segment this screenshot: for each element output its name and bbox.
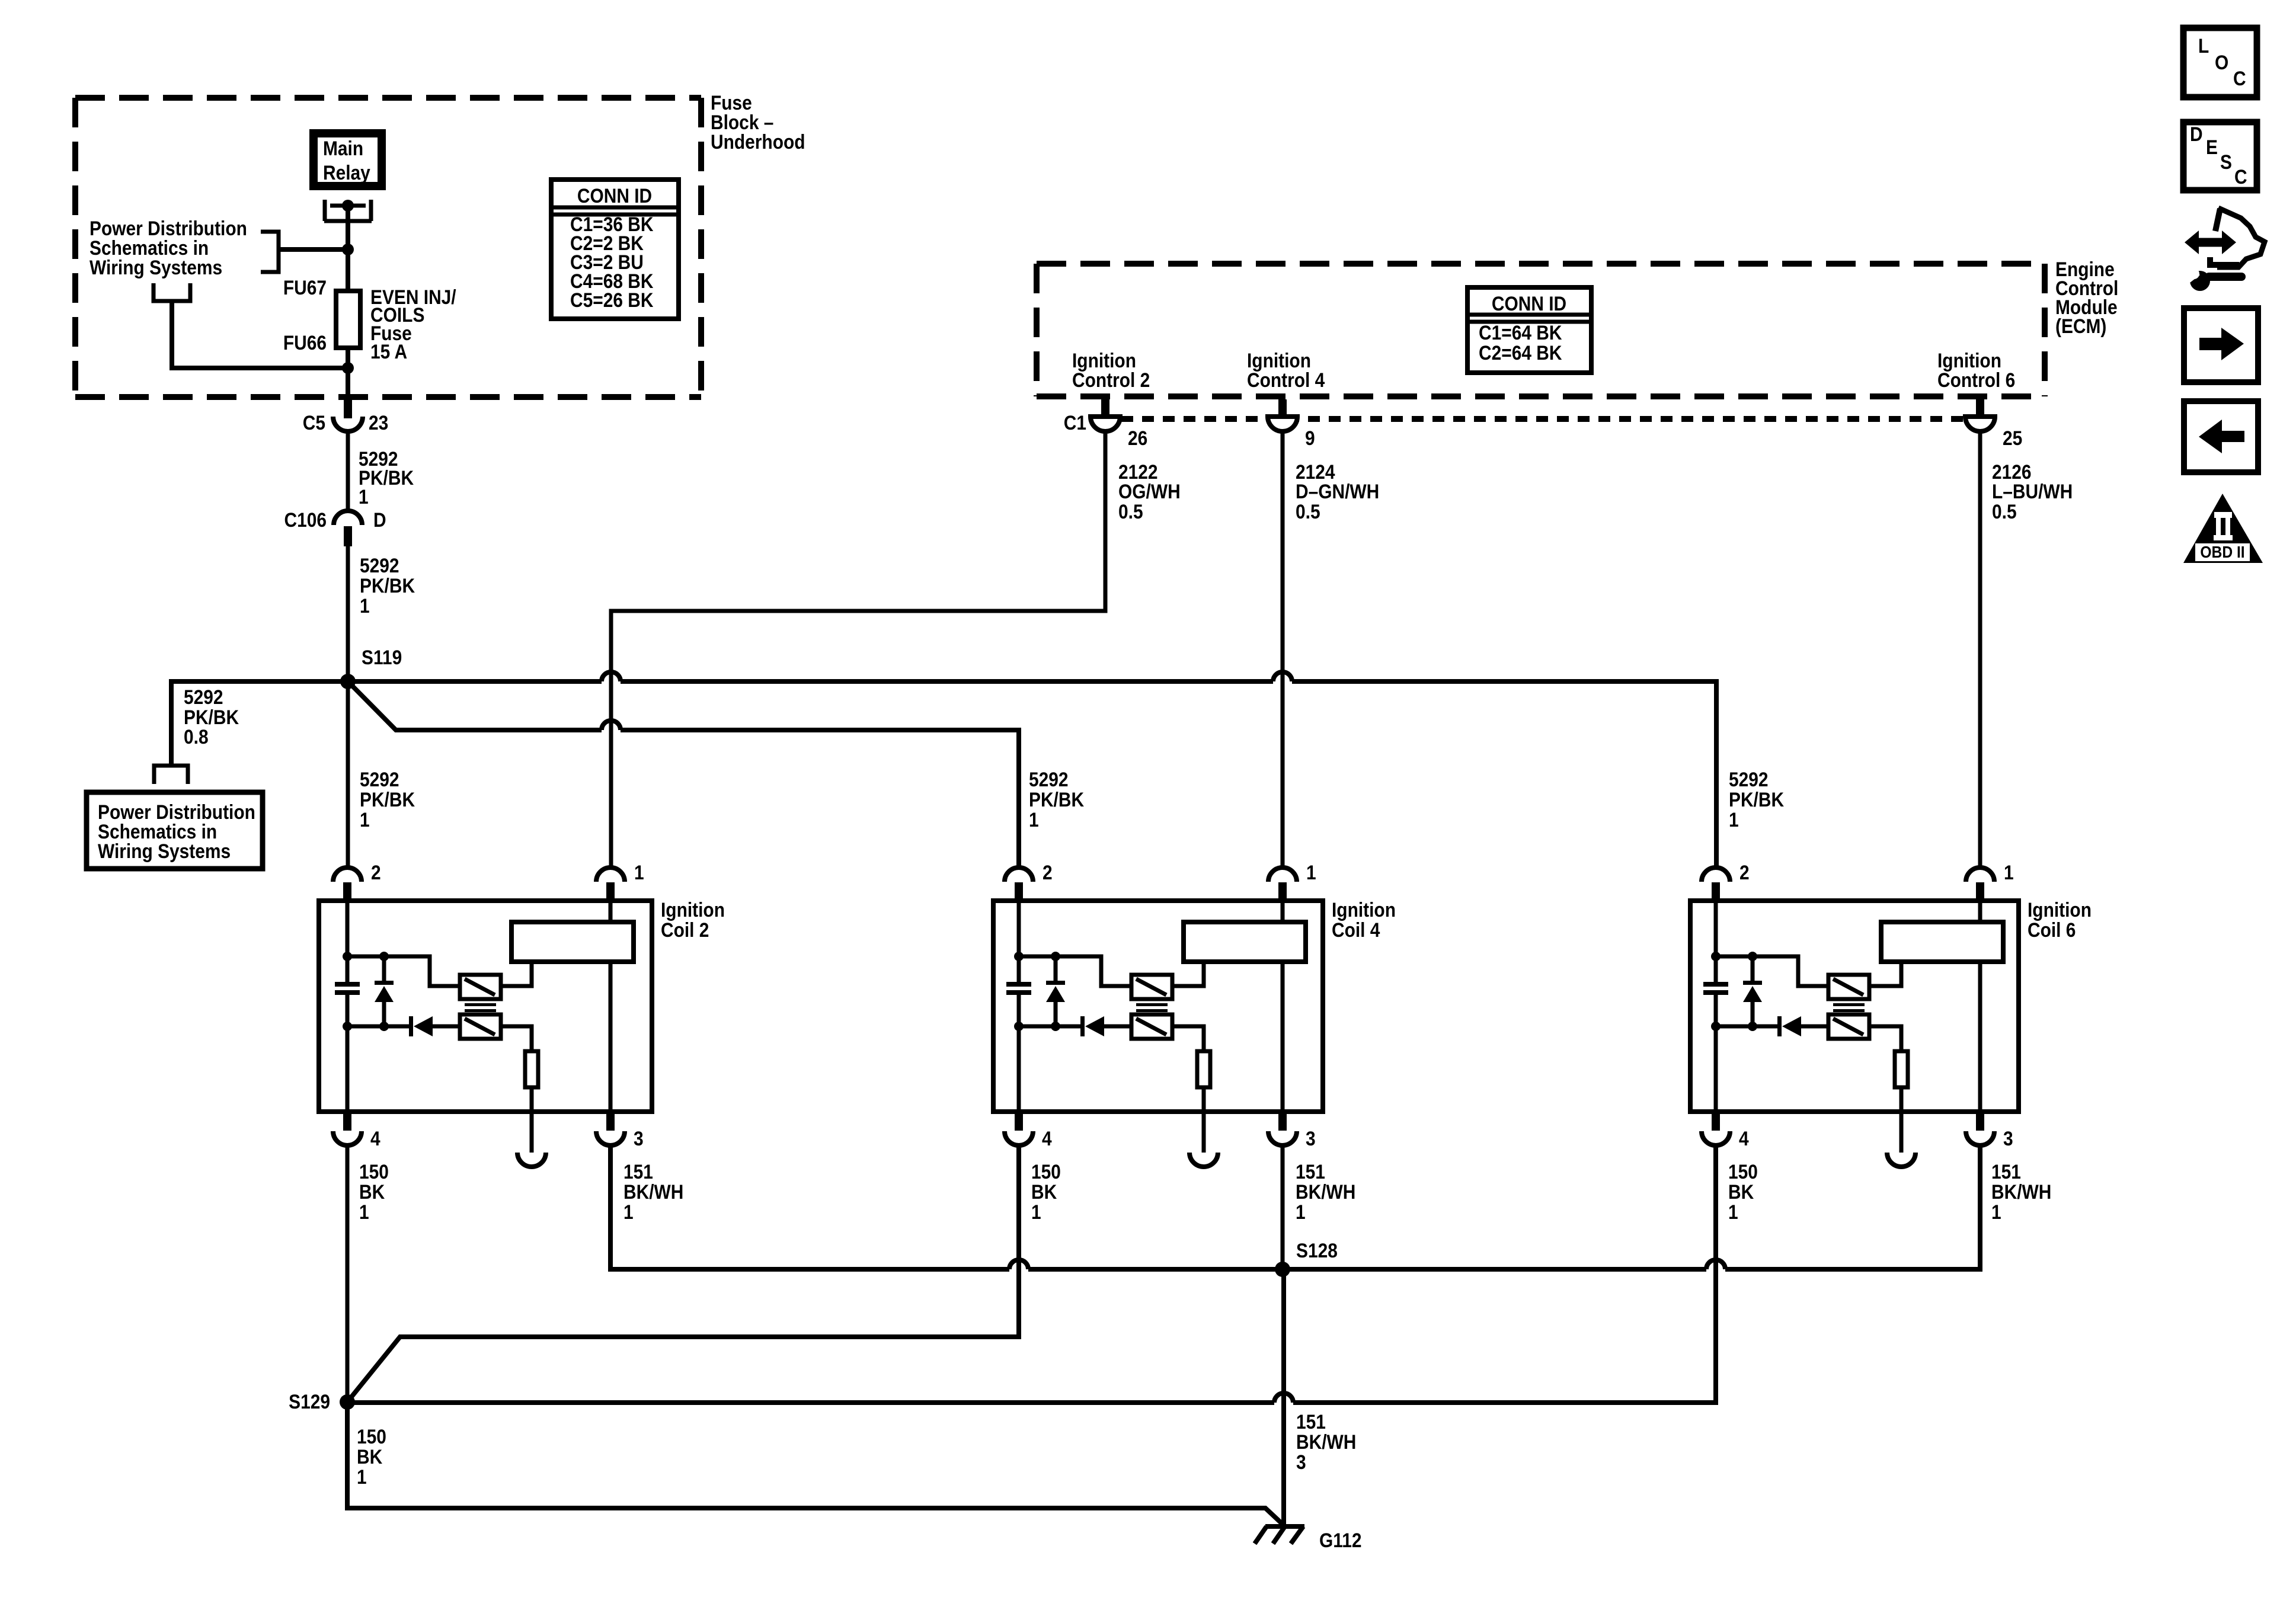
wire 150 BK 1: coil2 pin 4 down to S129 — [347, 1145, 389, 1402]
svg-text:FU67: FU67 — [283, 276, 327, 299]
coil 6 transformer core — [1833, 1003, 1865, 1012]
connector C5 pin 23 — [303, 397, 389, 434]
svg-text:Ignition: Ignition — [1332, 898, 1396, 921]
svg-text:1: 1 — [360, 594, 370, 617]
svg-text:BK: BK — [357, 1445, 382, 1468]
svg-text:15 A: 15 A — [370, 340, 407, 363]
ECM connector face dotted line — [1121, 416, 1968, 422]
svg-text:5292: 5292 — [360, 768, 399, 790]
coil 4 pin 4 connector — [1005, 1113, 1052, 1150]
main relay pedestal — [324, 200, 372, 221]
coil 2 diode — [347, 1016, 460, 1036]
svg-text:C: C — [2234, 165, 2247, 188]
coil 4 diode — [1019, 1016, 1131, 1036]
node: junction relay / power distribution tap — [342, 244, 354, 255]
svg-text:150: 150 — [1728, 1160, 1758, 1183]
label: Ignition Control 6 — [1937, 349, 2015, 391]
coil 2 primary winding — [460, 975, 501, 999]
coil 2 transformer core — [465, 1003, 496, 1012]
coil 6 pin 1 connector — [1966, 861, 2014, 900]
svg-text:Coil 6: Coil 6 — [2028, 918, 2076, 941]
wire 5292 PK/BK 1 (C5 to C106) — [348, 431, 414, 512]
coil 4 node dots — [1014, 952, 1024, 961]
node: junction below fuse FU66 — [342, 362, 354, 374]
svg-text:5292: 5292 — [184, 686, 223, 708]
svg-text:3: 3 — [634, 1127, 644, 1150]
svg-text:151: 151 — [623, 1160, 653, 1183]
coil 4 transformer core — [1136, 1003, 1168, 1012]
svg-text:150: 150 — [357, 1425, 386, 1448]
svg-text:O: O — [2215, 51, 2228, 73]
svg-text:5292: 5292 — [1029, 768, 1069, 790]
coil 4 internal wire pin1 column — [1281, 901, 1285, 1112]
coil 4 primary winding — [1131, 975, 1172, 999]
CONN ID table (ECM) — [1467, 287, 1591, 373]
wire 150 BK 1: coil4 pin 4 to S129 — [347, 1145, 1061, 1402]
svg-text:2: 2 — [371, 861, 381, 884]
svg-text:1: 1 — [1991, 1201, 2001, 1223]
svg-text:3: 3 — [1306, 1127, 1316, 1150]
coil 4 pin 1 connector — [1268, 861, 1316, 900]
wire 151 BK/WH 3: S128 down to G112 — [1284, 1269, 1356, 1526]
coil 6 secondary resistor — [1869, 1026, 1908, 1112]
coil 4 secondary winding — [1131, 1014, 1172, 1039]
svg-text:BK/WH: BK/WH — [1296, 1180, 1355, 1203]
coil 6 internal wire pin2 column — [1714, 901, 1718, 1112]
svg-text:C5: C5 — [303, 411, 325, 434]
icon: connector test / data link (double arrow, outline, wrench) — [2185, 208, 2265, 291]
svg-text:BK/WH: BK/WH — [1296, 1430, 1356, 1453]
label: Fuse Block - Underhood — [711, 91, 805, 153]
CONN ID table (fuse block) — [551, 180, 679, 319]
svg-text:1: 1 — [2004, 861, 2014, 884]
bracket above power distribution reference box — [154, 766, 188, 784]
svg-text:9: 9 — [1305, 427, 1315, 449]
wire: bracket to relay wire junction — [279, 247, 348, 252]
wire: bottom bracket down and right to fuse output junction — [172, 301, 348, 368]
svg-text:BK: BK — [359, 1180, 385, 1203]
relay: Main Relay — [314, 133, 382, 186]
splice S119 — [340, 646, 402, 689]
wire 5292 PK/BK 1: S119 down to coil2 pin 2 — [348, 681, 415, 868]
svg-text:2: 2 — [1043, 861, 1053, 884]
svg-text:D–GN/WH: D–GN/WH — [1296, 480, 1379, 502]
svg-text:S129: S129 — [289, 1390, 330, 1413]
svg-text:Control 6: Control 6 — [1937, 369, 2015, 391]
coil 4 pin 2 connector — [1005, 861, 1053, 900]
wire 5292 PK/BK: S119 right to coil6 pin 2 (hops at 1031 and 2164) — [348, 672, 1784, 868]
coil 2 pin 1 connector — [596, 861, 644, 900]
engine control module dashed box — [1037, 261, 2045, 267]
svg-text:(ECM): (ECM) — [2055, 315, 2106, 337]
coil 2 upper internal wire to primary winding — [347, 956, 460, 986]
svg-text:C1=64 BK: C1=64 BK — [1479, 321, 1562, 344]
fuse block - underhood dashed box — [75, 98, 701, 397]
coil 4 capacitor — [1006, 982, 1031, 995]
reference box: Power Distribution Schematics in Wiring Systems — [87, 792, 263, 869]
svg-text:5292: 5292 — [360, 554, 399, 577]
coil 6 upper internal wire to primary winding — [1716, 956, 1828, 986]
connector C106 pin D — [284, 508, 386, 546]
svg-text:C2=64 BK: C2=64 BK — [1479, 341, 1562, 364]
coil 2 pin 2 connector — [333, 861, 381, 900]
svg-text:150: 150 — [359, 1160, 389, 1183]
svg-text:0.5: 0.5 — [1296, 500, 1320, 523]
label: Ignition Control 4 — [1247, 349, 1325, 391]
svg-text:BK: BK — [1728, 1180, 1754, 1203]
svg-text:151: 151 — [1296, 1410, 1326, 1433]
svg-text:Wiring Systems: Wiring Systems — [89, 256, 222, 279]
svg-text:C: C — [2233, 67, 2246, 89]
svg-text:C106: C106 — [284, 508, 327, 531]
coil 4 driver module block — [1172, 922, 1306, 986]
bracket: power distribution bottom bracket — [154, 283, 190, 301]
svg-text:1: 1 — [634, 861, 644, 884]
svg-text:C1: C1 — [1064, 411, 1086, 434]
coil 4 spark plug connector — [1189, 1112, 1218, 1167]
coil 4 upper internal wire to primary winding — [1019, 956, 1131, 986]
svg-text:Relay: Relay — [323, 161, 370, 184]
wire 2124 D-GN/WH 0.5: pin 9 to coil4 pin1 — [1283, 431, 1379, 868]
svg-text:D: D — [373, 508, 386, 531]
bracket: power distribution right bracket — [261, 232, 279, 272]
svg-text:23: 23 — [369, 411, 388, 434]
coil 2 node dots — [343, 952, 352, 961]
svg-text:L: L — [2198, 34, 2209, 57]
coil 6 driver module block — [1869, 922, 2003, 986]
coil 4 secondary resistor — [1172, 1026, 1210, 1112]
ECM connector C1 pin 26 — [1064, 399, 1148, 449]
svg-text:3: 3 — [2003, 1127, 2013, 1150]
label: Ignition Control 2 — [1072, 349, 1150, 391]
svg-text:0.5: 0.5 — [1118, 500, 1143, 523]
coil 2 pin 4 connector — [333, 1113, 380, 1150]
svg-text:PK/BK: PK/BK — [1729, 788, 1784, 811]
svg-text:1: 1 — [623, 1201, 634, 1223]
coil 6 spark plug connector — [1887, 1112, 1916, 1167]
svg-text:150: 150 — [1031, 1160, 1061, 1183]
wire 5292 PK/BK: S119 diagonal branch to coil4 pin 2 (hop at 1031) — [348, 681, 1084, 868]
coil 6 pin 3 connector — [1966, 1113, 2013, 1150]
splice S128 — [1275, 1239, 1338, 1277]
svg-text:Main: Main — [323, 137, 363, 159]
icon: OBD II triangle — [2183, 494, 2263, 563]
svg-text:2: 2 — [1739, 861, 1750, 884]
svg-text:Coil 2: Coil 2 — [661, 918, 709, 941]
ignition coil 6 box — [1690, 898, 2092, 1112]
svg-text:1: 1 — [360, 808, 370, 831]
svg-text:PK/BK: PK/BK — [360, 574, 415, 597]
svg-text:1: 1 — [359, 1201, 369, 1223]
svg-text:Underhood: Underhood — [711, 130, 805, 153]
svg-text:S: S — [2220, 151, 2232, 173]
ECM connector pin 9 — [1268, 399, 1315, 449]
svg-text:Wiring Systems: Wiring Systems — [98, 840, 231, 862]
coil 6 internal wire pin1 column — [1978, 901, 1982, 1112]
svg-text:4: 4 — [1042, 1127, 1052, 1150]
svg-text:BK: BK — [1031, 1180, 1057, 1203]
svg-text:1: 1 — [1296, 1201, 1306, 1223]
wire 150 BK 1: S129 down and right to G112 — [347, 1402, 1284, 1525]
wire 150 BK 1: coil6 pin 4 down and left to S129 (hop at ground column) — [347, 1145, 1758, 1403]
svg-text:4: 4 — [1739, 1127, 1749, 1150]
svg-text:FU66: FU66 — [283, 331, 327, 354]
svg-text:BK/WH: BK/WH — [623, 1180, 683, 1203]
wire 2122 OG/WH 0.5: pin 26 to coil2 pin1 column — [611, 431, 1181, 868]
wire 5292 PK/BK 1 (C106 to S119) — [348, 546, 415, 681]
coil 2 secondary winding — [460, 1014, 501, 1039]
ECM connector pin 25 — [1965, 399, 2022, 449]
wire 151 BK/WH: S128 to coil6 pin 3 (hop at coil6 pin4 column) — [1283, 1145, 2051, 1269]
svg-text:CONN ID: CONN ID — [1492, 292, 1566, 315]
svg-text:E: E — [2206, 136, 2218, 158]
icon: LOC box — [2183, 28, 2257, 97]
icon: arrow left box — [2184, 401, 2258, 472]
coil 4 zener diode — [1046, 956, 1065, 1026]
svg-text:BK/WH: BK/WH — [1991, 1180, 2051, 1203]
coil 4 pin 3 connector — [1268, 1113, 1316, 1150]
svg-text:D: D — [2190, 123, 2203, 145]
wire 5292 PK/BK 0.8: S119 left to power distribution — [171, 681, 348, 764]
svg-text:25: 25 — [2003, 427, 2022, 449]
coil 6 secondary winding — [1828, 1014, 1869, 1039]
coil 2 spark plug connector — [517, 1112, 546, 1167]
svg-text:PK/BK: PK/BK — [360, 788, 415, 811]
svg-text:Ignition: Ignition — [661, 898, 725, 921]
wire: main relay down to fuse FU67 — [346, 206, 350, 291]
coil 4 internal wire pin2 column — [1017, 901, 1021, 1112]
svg-text:4: 4 — [370, 1127, 380, 1150]
splice S129 — [289, 1390, 355, 1413]
svg-text:S128: S128 — [1296, 1239, 1338, 1262]
fuse FU67/FU66 EVEN INJ/COILS Fuse 15 A — [283, 276, 456, 395]
coil 6 capacitor — [1703, 982, 1728, 995]
wire 2126 L-BU/WH 0.5: pin 25 to coil6 pin1 — [1980, 431, 2073, 868]
svg-text:1: 1 — [357, 1465, 367, 1488]
svg-text:0.5: 0.5 — [1992, 500, 2017, 523]
svg-text:1: 1 — [1728, 1201, 1738, 1223]
coil 2 internal wire pin1 column — [609, 901, 613, 1112]
svg-text:OG/WH: OG/WH — [1118, 480, 1181, 502]
coil 6 pin 2 connector — [1702, 861, 1750, 900]
coil 6 node dots — [1711, 952, 1721, 961]
svg-text:G112: G112 — [1319, 1529, 1362, 1551]
svg-text:1: 1 — [1029, 808, 1039, 831]
svg-text:1: 1 — [1306, 861, 1316, 884]
svg-text:CONN ID: CONN ID — [577, 184, 652, 207]
svg-text:Coil 4: Coil 4 — [1332, 918, 1380, 941]
svg-text:151: 151 — [1296, 1160, 1325, 1183]
coil 6 primary winding — [1828, 975, 1869, 999]
svg-text:0.8: 0.8 — [184, 725, 209, 748]
svg-text:5292: 5292 — [1729, 768, 1769, 790]
svg-text:C5=26 BK: C5=26 BK — [570, 289, 653, 311]
svg-text:Control 2: Control 2 — [1072, 369, 1150, 391]
svg-text:L–BU/WH: L–BU/WH — [1992, 480, 2073, 502]
svg-text:PK/BK: PK/BK — [1029, 788, 1084, 811]
coil 6 zener diode — [1743, 956, 1762, 1026]
svg-text:1: 1 — [359, 485, 369, 508]
ground G112 — [1255, 1526, 1362, 1551]
coil 2 driver module block — [501, 922, 634, 986]
coil 6 pin 4 connector — [1702, 1113, 1749, 1150]
svg-text:151: 151 — [1991, 1160, 2021, 1183]
svg-text:S119: S119 — [362, 646, 402, 668]
coil 2 internal wire pin2 column — [346, 901, 350, 1112]
coil 2 secondary resistor — [501, 1026, 538, 1112]
label: Engine Control Module (ECM) — [2055, 258, 2118, 337]
wire 151 BK/WH 1: coil4 pin 3 down to S128 — [1283, 1145, 1355, 1269]
coil 2 capacitor — [335, 982, 360, 995]
svg-text:Control 4: Control 4 — [1247, 369, 1325, 391]
coil 2 pin 3 connector — [596, 1113, 644, 1150]
svg-text:1: 1 — [1729, 808, 1739, 831]
svg-text:1: 1 — [1031, 1201, 1041, 1223]
icon: arrow right box — [2184, 308, 2258, 382]
ignition coil 4 box — [993, 898, 1396, 1112]
label: Power Distribution Schematics in Wiring Systems (fuse block) — [89, 217, 247, 279]
coil 2 zener diode — [375, 956, 394, 1026]
icon: DESC box — [2183, 122, 2257, 190]
svg-text:Ignition: Ignition — [2028, 898, 2092, 921]
wire 151 BK/WH 1: coil2 pin 3 to S128 (hop at coil4 pin4 column) — [610, 1145, 1283, 1269]
coil 6 diode — [1716, 1016, 1828, 1036]
ignition coil 2 box — [319, 898, 725, 1112]
svg-text:3: 3 — [1296, 1451, 1306, 1473]
svg-text:OBD II: OBD II — [2200, 543, 2244, 562]
svg-text:26: 26 — [1128, 427, 1147, 449]
